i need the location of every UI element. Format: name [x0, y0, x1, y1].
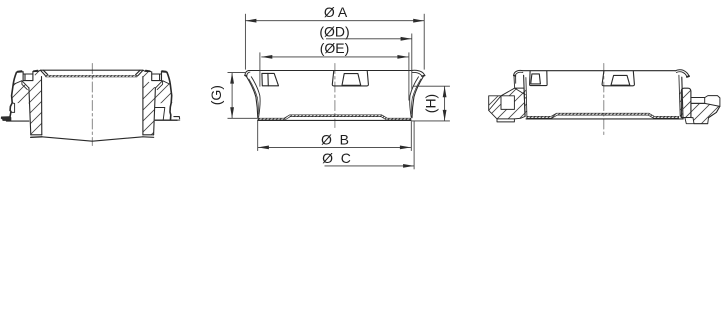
dim G top extension line — [228, 72, 246, 74]
svg-text:(H): (H) — [423, 94, 439, 113]
dim ØA right extension line — [423, 14, 425, 70]
bottom raised panel band — [258, 115, 411, 120]
left step rect lines — [11, 103, 15, 113]
bottom outer line — [526, 118, 683, 120]
right wall edges — [143, 77, 156, 135]
dim H top arrow — [443, 86, 447, 97]
top tab mark far right — [162, 70, 166, 73]
top surface line — [248, 70, 412, 72]
right bottom line thin ext — [177, 119, 180, 121]
dim ØD line — [326, 38, 412, 40]
bottom cap left wall upper line — [31, 134, 42, 136]
top surface line — [523, 70, 675, 72]
right flange underside slants — [156, 81, 171, 90]
svg-text:(ØE): (ØE) — [320, 40, 350, 56]
top rim trough hatched band — [45, 75, 138, 77]
left flange lip — [245, 71, 249, 76]
svg-text:(ØD): (ØD) — [319, 24, 349, 40]
right pocket square — [152, 72, 162, 81]
dim G bottom arrow — [230, 107, 234, 118]
top tab mark right — [146, 70, 150, 73]
right bottom line — [155, 119, 177, 121]
left wall outer line — [246, 76, 257, 117]
right bracket hatch edge right — [709, 106, 720, 117]
right outer contour — [167, 72, 172, 119]
dim ØA left arrow — [245, 19, 256, 23]
centerline right view — [603, 64, 605, 137]
left outer contour — [10, 72, 17, 117]
dim ØB left extension line — [257, 120, 259, 151]
center boss outer — [602, 71, 634, 86]
right flange hatched section — [156, 81, 173, 103]
dim ØB right extension line — [410, 121, 412, 151]
right wall inner line — [410, 77, 419, 118]
left wall hatch ticks — [524, 90, 527, 113]
right wall hatched section — [143, 77, 156, 135]
right bracket ledge outline — [691, 96, 720, 107]
dim ØC line — [325, 165, 415, 167]
left flange underside slants — [13, 81, 29, 90]
right wall mid crease — [411, 79, 420, 114]
right bracket column hatched — [681, 88, 691, 117]
top tab mark left — [34, 70, 38, 73]
bottom cap right wall upper line — [143, 134, 154, 136]
left bracket inner diagonal — [489, 96, 501, 111]
left wall mid crease — [249, 79, 258, 114]
dim ØE left extension line — [259, 52, 261, 86]
bottom cap right wall lower line — [143, 136, 154, 139]
bottom outer line — [258, 119, 412, 121]
centerline mid view — [334, 64, 336, 128]
right foot stubs — [174, 117, 180, 119]
small boss divider — [267, 73, 269, 85]
flange underside slant to wall — [515, 88, 525, 94]
top rim trough left slants — [40, 70, 47, 75]
rim hatch left of trough — [33, 71, 45, 79]
bottom raised panel band — [527, 113, 679, 118]
right wall outer line — [682, 77, 683, 118]
left foot bottom line — [6, 120, 29, 122]
left wall inner line — [526, 78, 527, 117]
dim ØB right arrow — [400, 146, 411, 150]
small boss left of center — [262, 73, 279, 85]
center boss outer — [332, 71, 368, 86]
left bracket hatched section — [489, 88, 525, 119]
right bracket body hatched — [691, 103, 720, 123]
dim G top arrow — [230, 73, 234, 84]
dim ØD right extension line — [411, 34, 413, 90]
dim H bottom extension line — [412, 120, 450, 122]
dim ØC right arrow — [403, 164, 414, 168]
right wall inner line — [679, 75, 680, 117]
right bracket foot stub — [685, 118, 708, 124]
dim ØA left extension line — [244, 14, 246, 70]
dim H top extension line — [414, 85, 450, 87]
right flange lip — [412, 70, 424, 75]
top rim trough right slants — [136, 70, 143, 75]
left wall edges — [29, 77, 42, 135]
dim ØB line — [258, 146, 411, 148]
svg-text:Ø B: Ø B — [321, 131, 349, 147]
svg-text:Ø C: Ø C — [322, 150, 351, 166]
right lip curl — [675, 70, 689, 76]
dim ØD right arrow — [401, 37, 412, 41]
right wall hatch ticks — [679, 92, 682, 116]
dim G bottom extension line — [228, 117, 258, 119]
dim ØE line — [261, 56, 408, 58]
top rim outer line — [17, 70, 168, 72]
bottom far edge V line — [42, 137, 143, 141]
dim ØA right arrow — [413, 19, 424, 23]
center boss inner trapezoid — [342, 74, 361, 86]
center boss inner trapezoid — [611, 75, 630, 85]
right wall outer line — [412, 76, 423, 117]
centerline left view — [91, 64, 93, 146]
dim ØE left arrow — [261, 55, 272, 59]
svg-text:(G): (G) — [208, 85, 224, 105]
left foot solid — [1, 117, 11, 121]
dim H bottom arrow — [443, 110, 447, 121]
dim ØC right extension line — [413, 121, 415, 169]
dim H line — [444, 86, 446, 121]
rim hatch right of trough — [139, 71, 152, 79]
dim ØE right arrow — [397, 55, 408, 59]
top tab mark far left — [18, 70, 22, 73]
right inner pocket — [155, 108, 165, 120]
left pocket square — [23, 72, 33, 81]
dim ØB left arrow — [258, 146, 269, 150]
flange edge under lip — [514, 76, 516, 88]
left wall outer line — [524, 75, 526, 116]
small boss left outer — [530, 71, 548, 86]
dim G line — [231, 73, 233, 119]
left flange hatched section — [12, 81, 29, 103]
svg-text:Ø A: Ø A — [324, 4, 348, 20]
left lip curl — [514, 70, 523, 75]
dim ØA line — [245, 20, 424, 22]
small boss left inner trapezoid — [531, 74, 541, 84]
left wall inner line — [251, 77, 260, 118]
left wall hatched section — [29, 77, 42, 135]
bottom cap left wall lower line — [31, 136, 42, 139]
left bracket foot outline — [497, 119, 514, 122]
dim ØE right extension line — [408, 52, 410, 100]
